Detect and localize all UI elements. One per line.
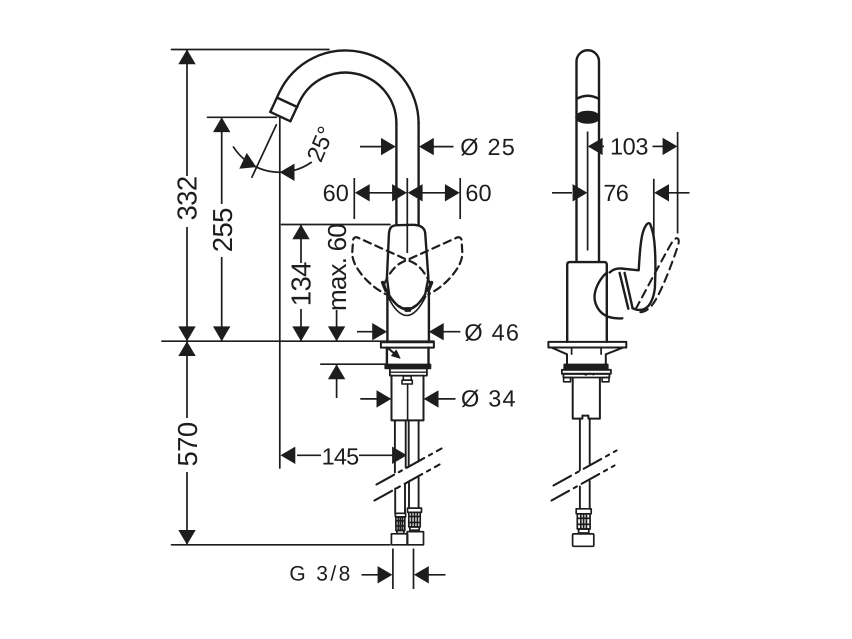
arrow o25 right [419,138,434,155]
side hose right upper [589,419,591,464]
arrow max60 up [328,364,345,379]
petal junction blob right [428,283,431,291]
svg-text:570: 570 [172,422,203,466]
svg-text:134: 134 [285,262,316,306]
svg-text:76: 76 [603,180,628,206]
dim 103 line right [653,145,664,147]
hose A left line upper [394,420,396,472]
dim max60 upper line [336,310,338,341]
body left edge to deck [386,291,388,342]
svg-text:145: 145 [322,444,360,470]
arrowheads [178,50,459,584]
projection/ext line x280 [279,117,281,468]
top reference line [172,49,330,51]
dim 76 left stem [552,192,572,194]
side heavy band [564,364,608,369]
svg-text:G 3/8: G 3/8 [289,562,352,585]
side hose right lower [589,481,591,509]
petal junction blob left [383,283,386,291]
side hose left lower [579,487,581,509]
svg-text:25°: 25° [302,123,340,166]
arrow 255 bottom [213,326,230,341]
dim G38 right stem [426,574,446,576]
deck underside line [321,363,387,365]
dim G38 ext lines [393,549,414,590]
side axis line [587,132,589,251]
arrow 103 right [663,138,678,155]
svg-text:332: 332 [171,176,202,220]
escutcheon flange front [381,342,434,347]
svg-text:60: 60 [465,180,491,206]
dimension texts [171,123,520,586]
hose B right line lower [418,478,420,509]
hose A right line upper [405,420,407,467]
25deg diagonal line [252,125,276,177]
handle swing petal left [352,237,430,294]
nut mid line front [390,371,427,373]
below-deck diagonal mark [389,349,395,354]
break line lower front [375,465,440,501]
hose B right line upper [418,420,420,461]
dim 76 ext right [653,179,655,238]
hose B left line lower [408,482,410,508]
arrow 332 bottom [178,326,195,341]
dim 255 line [221,117,223,341]
spout inner arc [290,73,396,124]
side pipe with cap [577,50,600,262]
side break upper [554,451,617,486]
arrow 76 right [654,184,669,201]
hose connector B front [407,508,423,545]
svg-text:Ø 25: Ø 25 [460,134,516,160]
dim 103 ext right [677,132,679,234]
petal left tail on handle bottom [390,298,406,310]
mounting heavy band front [385,364,430,368]
arrow 134 bottom [292,326,309,341]
shank center line [407,384,409,420]
below-deck mark arrowhead [392,350,400,358]
mounting nut front [390,368,427,375]
handle top reference line [282,224,391,226]
arrow 145 right [392,447,407,464]
handle skirt curve [595,273,623,319]
arrow 332 top [178,50,195,65]
deck line [162,340,434,342]
svg-text:Ø 34: Ø 34 [461,386,517,412]
arrow 25deg right end [280,164,295,181]
svg-text:103: 103 [610,134,648,160]
hose connector A front [391,508,423,545]
hose A left line lower [394,489,396,514]
spout joint line [277,98,297,107]
svg-text:Ø 46: Ø 46 [464,319,520,345]
arrow 103 left [588,138,603,155]
side shank [573,378,600,419]
arrow 570 bottom [178,530,195,545]
spout pipe right edge [417,123,419,225]
hose B left line upper [408,420,410,466]
spout pipe left edge [395,123,397,225]
side skirt trapezoid [552,348,623,365]
arrow 145 left [281,447,296,464]
side flange [548,342,626,348]
hose clip wide [402,380,412,384]
arrow o25 left [381,138,396,155]
arrow max60 down [328,326,345,341]
arrow G38 left [378,566,393,583]
dim 332 line [186,50,188,342]
dim 103 line left [589,145,604,147]
arrow o34 right [424,390,439,407]
25deg arc [233,146,312,172]
dim 60 ext+stems [354,178,460,253]
arrow 570 top [178,341,195,356]
dim max60 lower line [336,364,338,398]
lever outline [610,223,656,310]
arrow 60 center-right [408,184,423,201]
lever band line 2 [625,273,633,308]
side nut upper row [562,370,611,374]
dim 134 line [300,225,302,342]
dim 76 right stem [669,192,690,194]
dim o46 stems [357,331,460,333]
side skirt inner steps [572,348,602,354]
shank front [392,376,424,421]
floor line [172,544,390,546]
handle front outline [387,225,429,310]
arrow 134 top [292,225,309,240]
arrow 76 left [573,184,588,201]
side joint line [577,96,600,99]
break line upper front [377,449,442,485]
spout outlet reference line [208,116,277,118]
arrow o34 left [377,390,392,407]
body arc under handle [388,297,425,316]
side nut left ear [564,378,571,382]
arrow o46 left [372,323,387,340]
svg-text:60: 60 [323,180,349,206]
arrow 60 left-out [355,184,370,201]
side nut right ear [602,378,609,382]
side break lower [552,466,615,501]
side outlet ellipse [576,112,599,123]
dim 145 line [297,454,393,456]
spout outer arc [270,50,418,123]
handle swing petal right [384,237,462,294]
dim G38 left stem [362,574,381,576]
handle bottom dark blob [404,308,412,312]
side nut lower row [563,374,609,378]
dim o34 stems [360,398,455,400]
side nut facet zigzag [582,373,594,375]
svg-text:max. 60: max. 60 [322,224,352,311]
spout tip face [270,112,290,121]
hose A right line lower [404,484,406,513]
below-deck body front [387,348,429,365]
dim 570 line [186,341,188,545]
dim o25 stems [360,146,454,148]
arrow 255 top [213,117,230,132]
side body [567,262,607,342]
lever dashed alternate position [636,238,679,312]
side hose left upper [579,419,581,470]
arrow 60 center-left [392,184,407,201]
petal right tail on handle bottom [408,297,424,310]
SIDE VIEW [548,50,678,418]
body right edge to deck [428,291,430,342]
arrow 60 right-out [445,184,460,201]
arrow 25deg left end [239,153,256,169]
lever band line 1 [620,273,629,309]
svg-text:255: 255 [207,208,238,252]
side hose connector [573,509,594,547]
arrow G38 right [414,566,429,583]
hose clip small [403,376,411,380]
arrow o46 right [429,323,444,340]
